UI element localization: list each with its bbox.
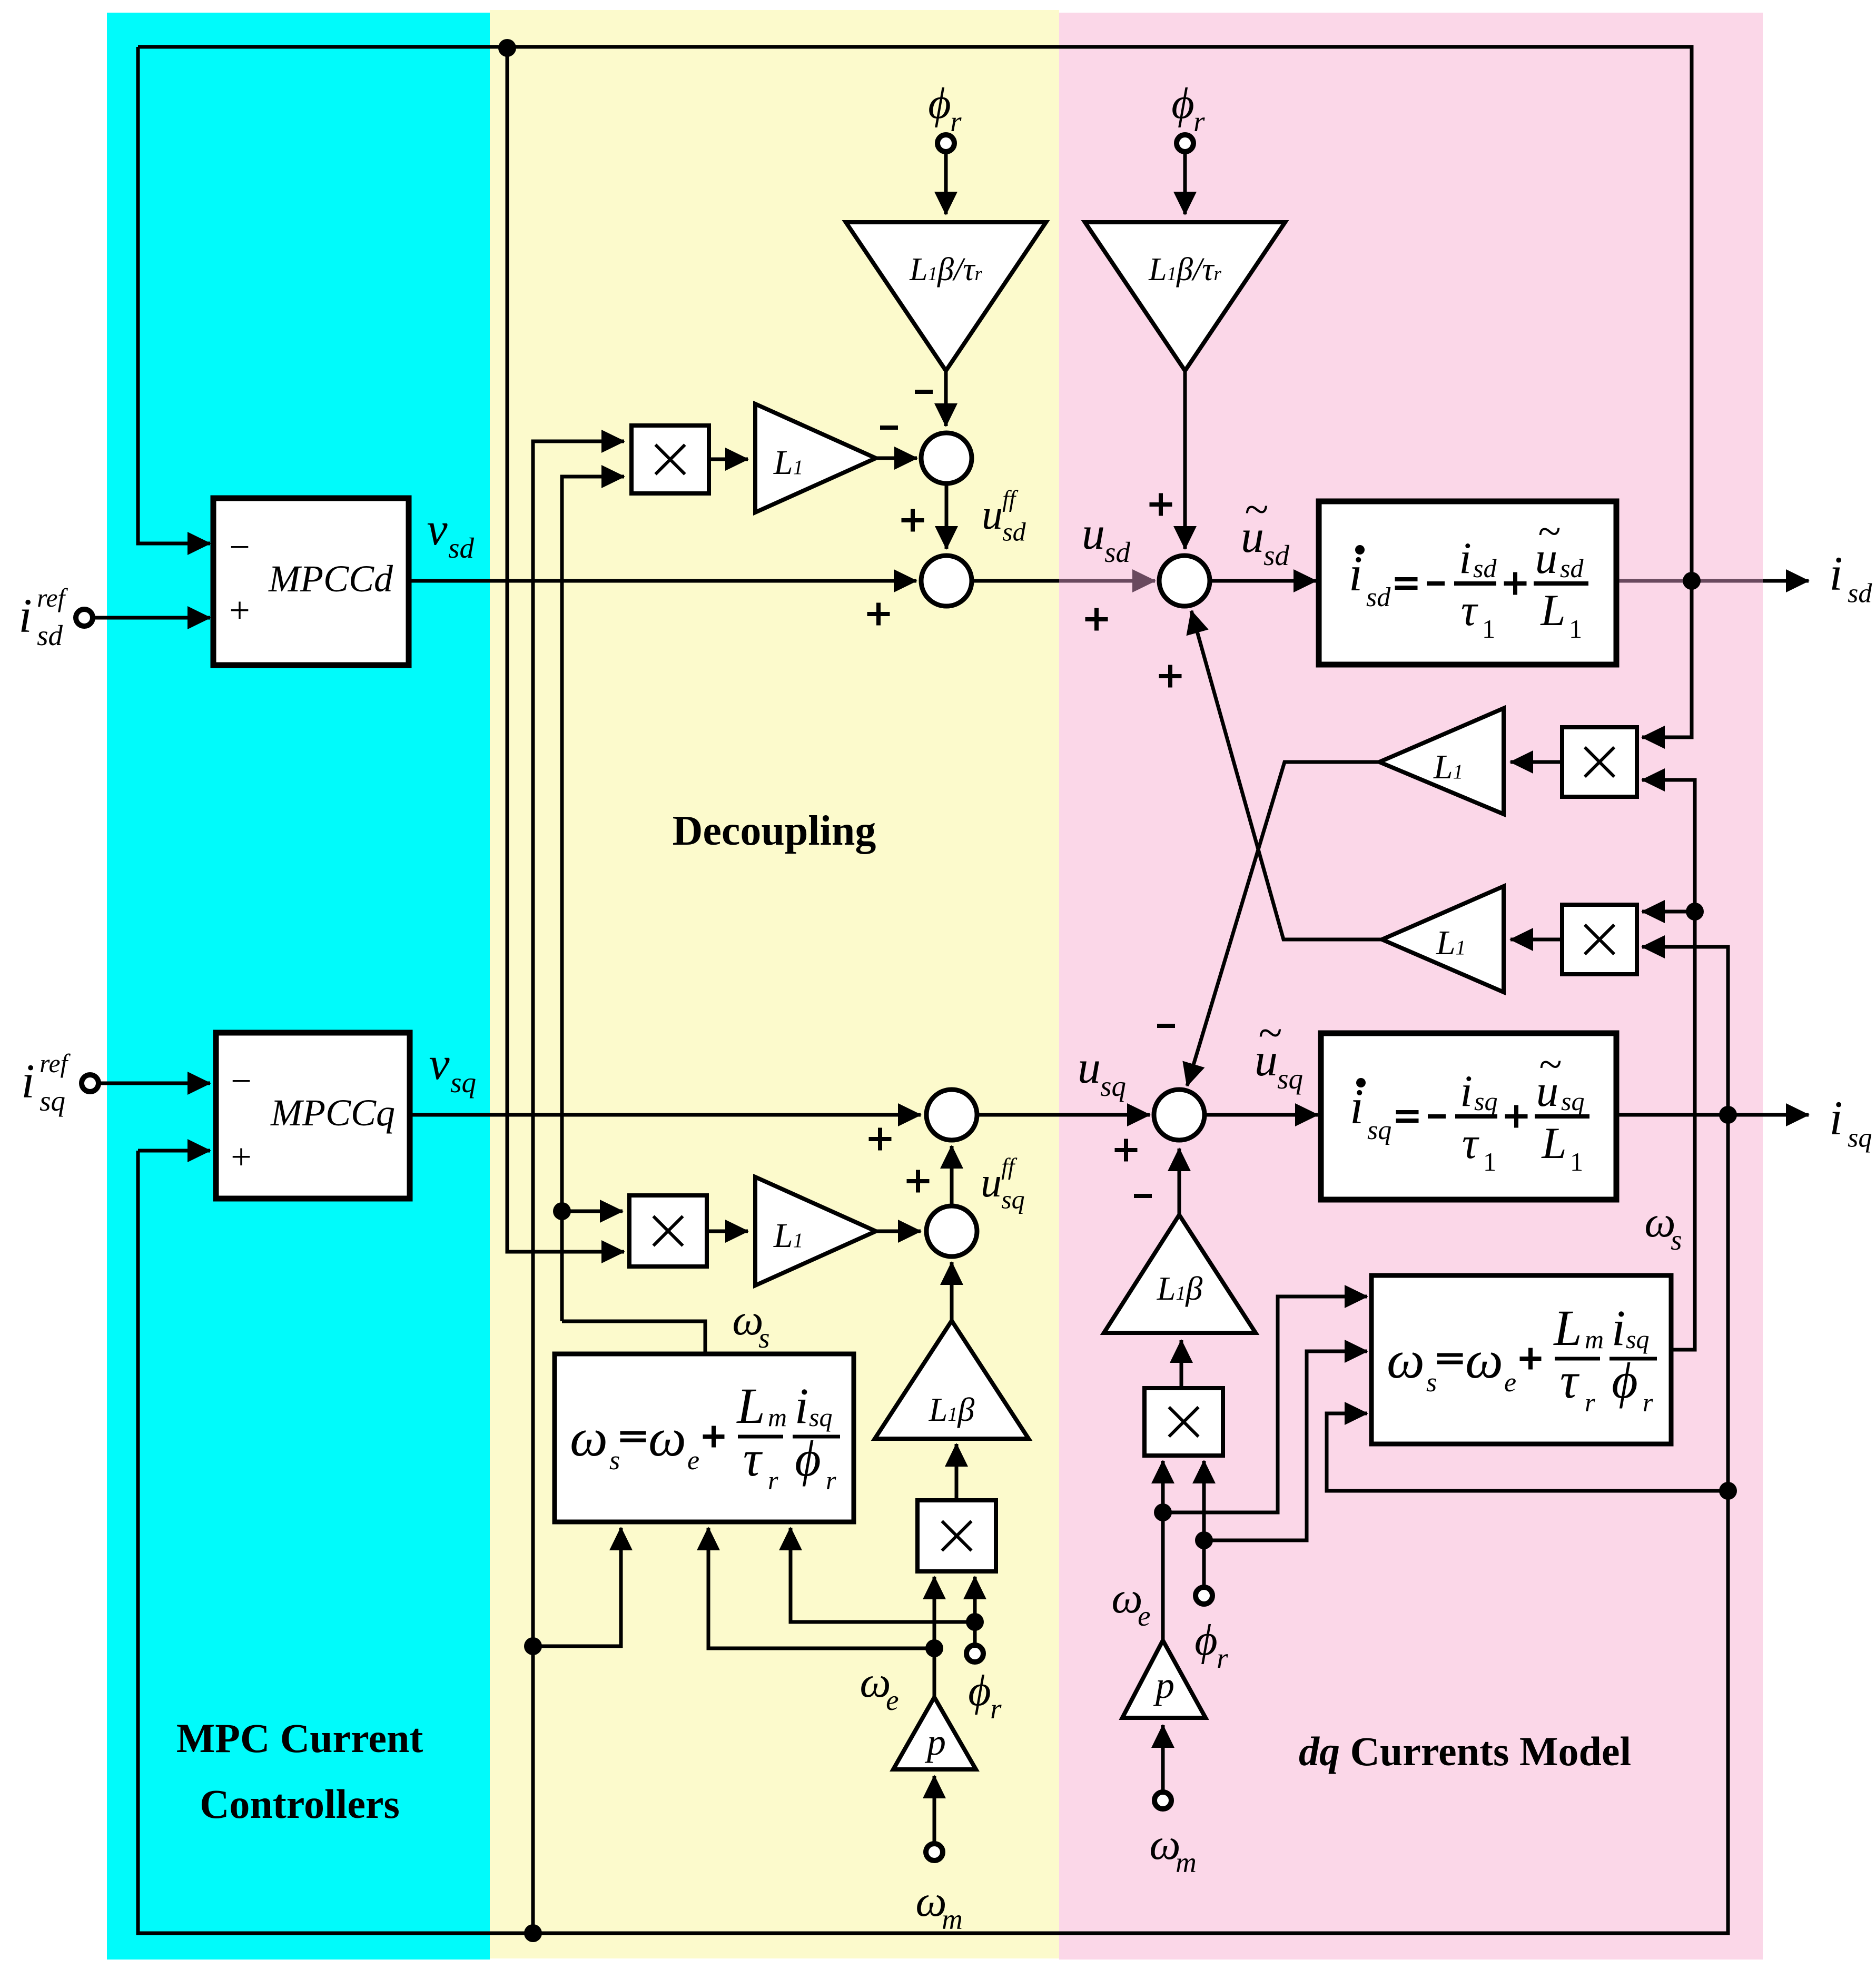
svg-text:+: + [231, 1137, 251, 1177]
svg-text:sq: sq [1474, 1086, 1497, 1116]
svg-text:ϕ: ϕ [795, 1430, 821, 1487]
svg-text:Controllers: Controllers [200, 1781, 400, 1827]
svg-text:v: v [427, 504, 448, 555]
svg-text:sd: sd [1560, 553, 1584, 583]
svg-text:L: L [1541, 1119, 1566, 1168]
svg-text:τ: τ [1560, 1352, 1580, 1409]
svg-text:ref: ref [37, 583, 68, 612]
svg-text:sq: sq [809, 1402, 832, 1432]
svg-text:ϕ: ϕ [968, 1666, 991, 1715]
svg-text:u: u [982, 492, 1003, 538]
svg-text:v: v [429, 1038, 450, 1090]
svg-text:r: r [1585, 1388, 1595, 1417]
svg-text:sd: sd [1473, 553, 1497, 583]
svg-text:r: r [768, 1466, 778, 1495]
svg-text:τ: τ [1461, 586, 1478, 635]
svg-text:m: m [1585, 1324, 1604, 1354]
svg-text:i: i [1829, 1091, 1843, 1145]
svg-text:1: 1 [1482, 614, 1495, 644]
svg-text:r: r [950, 105, 962, 137]
svg-text:p: p [1153, 1664, 1174, 1706]
svg-text:MPCCq: MPCCq [270, 1092, 395, 1134]
svg-text:sq: sq [1561, 1086, 1584, 1116]
svg-text:i: i [1460, 1066, 1473, 1116]
svg-text:sq: sq [1367, 1115, 1391, 1145]
svg-text:r: r [1643, 1388, 1653, 1417]
svg-text:ω: ω [648, 1408, 686, 1468]
svg-text:e: e [687, 1446, 699, 1476]
svg-text:−: − [231, 1061, 251, 1102]
svg-text:r: r [990, 1693, 1002, 1725]
svg-text:~: ~ [1538, 509, 1561, 555]
svg-text:i: i [1612, 1300, 1626, 1356]
svg-text:s: s [1671, 1224, 1682, 1256]
svg-text:L: L [736, 1378, 765, 1434]
svg-text:sd: sd [448, 532, 474, 564]
svg-text:sd: sd [1104, 536, 1130, 568]
svg-text:1: 1 [1483, 1147, 1496, 1176]
svg-text:e: e [886, 1684, 898, 1716]
svg-text:r: r [1193, 105, 1205, 137]
svg-text:p: p [924, 1721, 946, 1763]
svg-text:MPCCd: MPCCd [268, 558, 393, 600]
svg-text:i: i [18, 589, 32, 642]
svg-text:m: m [942, 1903, 963, 1935]
svg-text:i: i [21, 1054, 35, 1108]
svg-text:ϕ: ϕ [1171, 79, 1194, 128]
svg-text:s: s [1426, 1368, 1437, 1398]
svg-text:dq Currents Model: dq Currents Model [1299, 1728, 1631, 1774]
svg-text:sq: sq [1277, 1063, 1303, 1095]
svg-text:ϕ: ϕ [1612, 1352, 1638, 1409]
svg-text:L1β/τr: L1β/τr [1148, 252, 1221, 288]
svg-text:sq: sq [450, 1066, 476, 1099]
svg-text:sd: sd [37, 619, 63, 651]
svg-text:~: ~ [1258, 1009, 1282, 1057]
svg-text:ϕ: ϕ [928, 79, 951, 128]
svg-text:m: m [1176, 1846, 1197, 1878]
svg-text:τ: τ [1462, 1119, 1479, 1168]
svg-text:sd: sd [1848, 578, 1872, 608]
svg-text:i: i [1459, 533, 1472, 583]
svg-text:−: − [229, 527, 250, 568]
svg-text:ω: ω [570, 1408, 608, 1468]
svg-text:u: u [1082, 508, 1105, 559]
svg-text:e: e [1138, 1600, 1150, 1632]
svg-text:sd: sd [1002, 517, 1026, 547]
svg-text:r: r [1217, 1642, 1228, 1674]
svg-text:sq: sq [1001, 1185, 1024, 1214]
svg-text:i: i [795, 1378, 809, 1434]
svg-text:1: 1 [1570, 1147, 1583, 1176]
svg-text:sq: sq [1100, 1070, 1126, 1102]
svg-text:e: e [1504, 1368, 1516, 1398]
svg-text:u: u [1078, 1042, 1101, 1093]
svg-text:+: + [229, 590, 250, 631]
svg-text:1: 1 [1569, 614, 1582, 644]
svg-text:sq: sq [1626, 1324, 1649, 1354]
svg-text:ref: ref [40, 1049, 71, 1078]
svg-text:sd: sd [1263, 539, 1289, 571]
svg-text:τ: τ [743, 1430, 763, 1487]
svg-text:sq: sq [40, 1085, 65, 1117]
svg-text:~: ~ [1245, 486, 1268, 534]
svg-text:m: m [768, 1402, 787, 1432]
svg-text:s: s [609, 1446, 620, 1476]
svg-text:sq: sq [1848, 1123, 1872, 1153]
svg-text:ϕ: ϕ [1194, 1616, 1217, 1665]
svg-text:L1β/τr: L1β/τr [909, 252, 982, 288]
svg-text:r: r [826, 1466, 836, 1495]
svg-text:L: L [1553, 1300, 1582, 1356]
svg-text:~: ~ [1539, 1042, 1562, 1088]
svg-text:u: u [981, 1160, 1002, 1206]
svg-text:ω: ω [1465, 1330, 1503, 1390]
svg-text:i: i [1829, 547, 1843, 600]
svg-text:L: L [1540, 586, 1565, 635]
svg-text:sd: sd [1366, 582, 1391, 612]
svg-text:s: s [758, 1322, 769, 1354]
svg-text:Decoupling: Decoupling [673, 808, 876, 854]
svg-text:MPC Current: MPC Current [176, 1715, 423, 1761]
svg-text:ω: ω [1387, 1330, 1425, 1390]
